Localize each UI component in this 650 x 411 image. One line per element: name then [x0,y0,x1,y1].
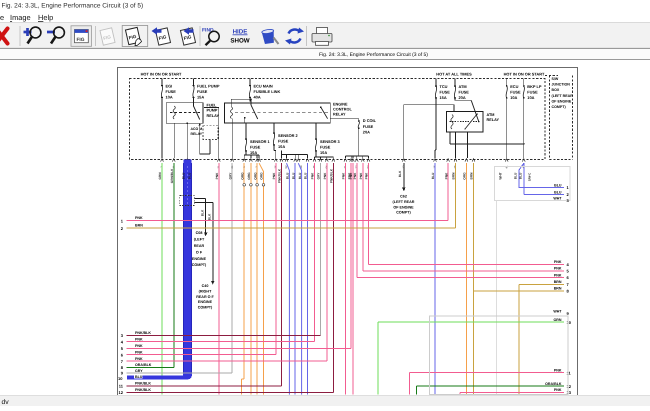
svg-text:(RIGHT: (RIGHT [199,289,212,293]
svg-text:Fig. 24: 3.3L, Engine Performa: Fig. 24: 3.3L, Engine Performance Circui… [319,52,428,58]
wire GRN/BLK [173,163,175,367]
relay ACO M (dashed box) [203,126,218,140]
wire ORG 2 [250,163,252,394]
wire PNK t5 [350,163,352,348]
title bar [0,0,650,11]
svg-text:(LEFT REAR: (LEFT REAR [393,200,415,204]
svg-text:PNK: PNK [311,172,315,179]
svg-text:FUSE: FUSE [363,124,374,129]
svg-text:RELAY: RELAY [333,113,346,117]
wire BLK to C08 ground [194,199,213,281]
svg-text:PNK: PNK [135,357,143,361]
svg-text:BLK: BLK [201,209,205,216]
svg-text:e: e [0,13,4,22]
wire PNK fuel pump [218,163,220,394]
svg-text:PNK: PNK [554,273,562,277]
fuse ATM 20A [454,79,456,86]
wire BLU 1 [287,163,290,394]
toolbar zoom in [24,27,41,43]
svg-text:RELAY: RELAY [207,114,220,118]
svg-text:BLU: BLU [514,172,518,179]
svg-text:EGI: EGI [166,84,173,89]
fuse ECU 10A [506,79,508,86]
svg-text:REAR: REAR [194,244,205,248]
svg-text:ENGINE: ENGINE [198,300,213,304]
wire BLU 4 [307,163,309,394]
svg-text:BLU: BLU [187,172,191,179]
svg-text:SENSOR 2: SENSOR 2 [278,133,299,138]
svg-text:12: 12 [567,384,572,389]
svg-text:Fig. 24: 3.3L, Engine Performa: Fig. 24: 3.3L, Engine Performance Circui… [2,3,144,10]
status bar [0,395,650,406]
svg-text:PUMP: PUMP [207,109,218,113]
toolbar bucket [262,29,276,44]
wire BLU 2 [294,163,296,394]
diagram frame [118,68,578,396]
wire BLU 3 [298,163,301,394]
svg-text:COMPT): COMPT) [396,211,411,215]
svg-text:FUSE: FUSE [250,145,261,150]
svg-text:GRN: GRN [158,172,162,180]
svg-text:PNK: PNK [215,172,219,179]
svg-text:SHOW: SHOW [230,38,249,45]
svg-text:BLK: BLK [398,170,402,177]
svg-text:PNK: PNK [554,267,562,271]
svg-text:(LEFT: (LEFT [194,238,205,242]
svg-text:BLU: BLU [519,172,523,179]
svg-text:BLK: BLK [208,213,212,220]
svg-text:ECU MAIN: ECU MAIN [254,84,273,89]
svg-text:BOX: BOX [552,88,560,92]
svg-text:BLU: BLU [431,172,435,179]
svg-text:C40: C40 [202,284,209,288]
svg-text:10A: 10A [527,95,534,100]
svg-text:BLU: BLU [291,172,295,179]
svg-text:40A: 40A [254,95,261,100]
wire labels (rotated) [158,168,523,183]
svg-text:ENGINE: ENGINE [333,103,348,107]
toolbar fig prev [155,28,170,45]
wire PNK right terminal 5 [363,270,564,272]
wire PNK left terminal 6 [127,354,276,356]
svg-text:BRN: BRN [135,224,143,228]
svg-text:BRN: BRN [554,287,562,291]
svg-text:WHT: WHT [553,196,562,200]
svg-text:PNK/BLK: PNK/BLK [330,168,334,183]
wire splice bar [345,155,368,157]
svg-text:CONTROL: CONTROL [333,108,352,112]
svg-text:PNK: PNK [323,172,327,179]
bus junction box (dashed) [130,79,546,160]
wire WHT right terminal 9 [0,0,1,1]
fuse TCU 15A [435,79,437,86]
wire GRN right terminal 10 [378,321,564,323]
svg-text:20A: 20A [363,129,370,134]
wire PNK13 vertical [459,392,461,394]
wire BLU term1 [519,163,564,187]
caption bar [0,47,650,49]
svg-text:ACO M: ACO M [191,127,203,131]
svg-text:PNK: PNK [444,172,448,179]
svg-text:S/W-C: S/W-C [528,172,532,181]
wire PNK t7 [326,163,328,361]
svg-text:10: 10 [118,376,123,381]
wire PNK r5 [362,163,364,271]
svg-text:ATM: ATM [487,113,495,117]
svg-text:PNK: PNK [135,337,143,341]
svg-text:GRN/BLK: GRN/BLK [170,168,174,183]
svg-text:HOT AT ALL TIMES: HOT AT ALL TIMES [436,72,472,77]
fuse SENSOR 3 10A [315,138,340,155]
svg-text:FUSE: FUSE [510,90,521,95]
svg-text:20A: 20A [459,95,466,100]
wire BLU right terminal 2 [0,0,1,1]
fuse ECU MAIN FUSIBLE LINK 40A [249,79,251,86]
wire PNK long1 [344,163,346,394]
svg-text:GRN: GRN [554,318,562,322]
svg-text:ORG: ORG [463,172,467,180]
wire BRN atm2 [473,163,475,394]
svg-text:BLU: BLU [135,375,143,379]
svg-text:PNK: PNK [342,172,346,179]
svg-text:PNK: PNK [272,172,276,179]
svg-text:GRY: GRY [228,172,232,180]
wire PNK/BLK left terminal 3 [127,334,321,336]
svg-text:12: 12 [119,390,124,395]
fuse BKP LP 10A [523,79,525,86]
svg-text:COMPT): COMPT) [198,306,213,310]
wire ORG 3 [256,163,258,394]
svg-text:PNK/BLK: PNK/BLK [135,388,151,392]
wire PNK/BLK t12 [332,163,334,392]
svg-text:COMPT): COMPT) [552,105,567,109]
svg-text:S/W: S/W [552,77,559,81]
svg-text:PNK/BLK: PNK/BLK [135,382,151,386]
svg-text:ORA/BLK: ORA/BLK [135,363,152,367]
svg-text:HOT IN ON OR START: HOT IN ON OR START [504,72,545,77]
wire WHT right terminal 3 [0,0,1,1]
svg-text:10A: 10A [278,144,285,149]
svg-text:10A: 10A [250,150,257,155]
svg-text:PNK: PNK [353,172,357,179]
svg-text:FIG: FIG [77,37,85,43]
wire splice bar 2 [282,154,308,156]
svg-text:WHT: WHT [553,309,562,313]
svg-text:dv: dv [2,399,10,406]
fuse FUEL PUMP 15A [193,79,195,86]
svg-text:BLU: BLU [298,172,302,179]
toolbar fig next [180,28,195,45]
relay ENGINE CONTROL RELAY [225,98,353,123]
svg-text:15A: 15A [197,95,204,100]
wire BLU tcu [434,163,436,394]
svg-text:10A: 10A [320,150,327,155]
svg-text:BKP LP: BKP LP [527,84,542,89]
wire PNK right terminal 4 [369,263,565,265]
wire GRY left terminal 9 [127,372,233,374]
module box terminals 1-3 (light) [494,167,570,201]
wire PNK left terminal 5 [127,347,352,349]
wire PNK right terminal 6 [357,277,564,279]
svg-text:ENGINE: ENGINE [192,257,207,261]
svg-text:FUEL: FUEL [207,104,218,108]
module box (light) [430,316,569,395]
svg-text:RELAY: RELAY [191,132,203,136]
wire BLU right terminal 1 [0,0,1,1]
toolbar zoom out [47,27,64,43]
svg-text:FIND: FIND [202,28,214,34]
svg-text:C62: C62 [400,195,407,199]
wire BRN terminal 2 [127,227,456,229]
fuse SENSOR 1 10A [245,138,270,155]
wire BRN right terminal 8 [474,290,565,292]
wire PNK/BLK left terminal 11 [127,385,282,387]
svg-text:10A: 10A [166,95,173,100]
svg-text:10: 10 [567,320,572,325]
wire ORG 1 [243,163,245,379]
fuse EGI 10A [161,79,163,86]
wire PNK11 vertical [409,373,411,395]
svg-text:ORG: ORG [240,172,244,180]
ground C40 [211,281,215,285]
svg-text:PNK: PNK [554,369,562,373]
svg-text:TCU: TCU [440,84,448,89]
svg-text:BLU: BLU [554,183,562,187]
wire splice bar 1b [315,156,334,158]
wire BRN right terminal 7 [519,283,564,285]
svg-text:D COIL: D COIL [363,118,377,123]
relay FUEL PUMP RELAY [166,103,219,124]
connector C08 (dashed) [180,196,195,206]
svg-text:FUSE: FUSE [278,139,289,144]
svg-text:BLU: BLU [304,172,308,179]
svg-text:Image: Image [10,13,31,22]
wire relay legs [173,123,175,158]
svg-text:PNK: PNK [135,216,143,220]
wire PNK t4 [314,163,316,341]
wire ORA/BLK right terminal 12 [417,385,565,387]
svg-text:PNK: PNK [359,172,363,179]
wire GRN [161,163,163,394]
toolbar fig window button [71,26,92,47]
svg-text:PNK: PNK [135,344,143,348]
svg-text:FUSIBLE LINK: FUSIBLE LINK [254,89,281,94]
svg-text:ORG: ORG [253,172,257,180]
svg-text:BRN: BRN [554,280,562,284]
svg-text:ECU: ECU [510,84,518,89]
svg-text:FUSE: FUSE [527,90,538,95]
wire ORA/BLK left terminal 8 [127,366,174,368]
svg-text:OF ENGINE: OF ENGINE [393,205,414,209]
toolbar close X [0,29,8,44]
connector pins [161,159,526,162]
svg-text:ORG: ORG [247,172,251,180]
svg-text:PNK: PNK [135,350,143,354]
svg-text:BRN: BRN [452,172,456,180]
wire PNK long2 [352,163,354,394]
wire BLU bundle (thick) [183,159,192,373]
svg-text:PNK: PNK [365,172,369,179]
svg-text:BRN: BRN [470,172,474,180]
svg-text:PNK/BLK: PNK/BLK [278,168,282,183]
toolbar printer [317,28,328,35]
toolbar fig page disabled [100,28,115,45]
relay ATM RELAY [447,112,500,133]
splice circles [243,184,246,187]
wire GRN10 vertical [377,322,379,394]
svg-text:RELAY: RELAY [487,118,500,122]
svg-text:SENSOR 1: SENSOR 1 [250,139,271,144]
svg-text:SENSOR 3: SENSOR 3 [320,139,341,144]
wire PNK left terminal 7 [127,360,327,362]
fuse D COIL 20A [358,118,377,134]
wire PNK t6 [275,163,277,354]
svg-text:REAR O F: REAR O F [196,295,214,299]
svg-text:PNK: PNK [554,260,562,264]
toolbar fig page hand button [122,26,148,47]
wire PNK r6 [356,163,358,277]
wire PNK left terminal 4 [127,341,315,343]
svg-text:FUSE: FUSE [166,89,177,94]
svg-text:ORA/BLK: ORA/BLK [545,382,562,386]
svg-text:C08: C08 [196,231,203,235]
wire PNK/BLK left terminal 12 [127,391,334,393]
svg-text:BLU: BLU [181,172,185,179]
svg-text:HOT IN ON OR START: HOT IN ON OR START [141,72,182,77]
menu bar [0,11,650,23]
wire PNK r4 [368,163,370,264]
wire GRY t3 [319,163,321,335]
wire GRY 1 [231,163,233,373]
wire PNK terminal 1 [127,220,449,222]
svg-text:GRY: GRY [317,172,321,180]
svg-text:FUSE: FUSE [320,145,331,150]
toolbar [0,23,650,48]
toolbar refresh [289,30,301,43]
svg-text:GRY: GRY [135,369,143,373]
wire ORG atm [465,163,467,394]
wire BLK to C40 ground [194,202,213,204]
fuse SENSOR 2 10A [273,132,298,149]
svg-text:FUSE: FUSE [440,90,451,95]
svg-text:PNK: PNK [554,388,562,392]
wire C62 feed [404,104,454,106]
svg-text:FUSE: FUSE [197,89,208,94]
module boundary (light) [496,201,498,395]
wire BRN7 vertical [518,284,520,394]
svg-text:15A: 15A [440,95,447,100]
wire BLU term2 [523,163,525,194]
ground C62 [403,163,405,187]
svg-text:(LEFT REAR: (LEFT REAR [552,94,574,98]
svg-text:PNK/BLK: PNK/BLK [135,331,151,335]
svg-text:FUEL PUMP: FUEL PUMP [197,84,220,89]
svg-text:WHT: WHT [499,172,503,179]
wire EC relay legs [231,119,233,159]
wire ATM relay legs [455,132,457,158]
wire ORA/BLK12 vertical [416,386,418,394]
svg-text:ATM: ATM [459,84,467,89]
svg-text:10A: 10A [510,95,517,100]
wire ORG 4 [259,163,263,394]
svg-text:FUSE: FUSE [459,90,470,95]
wire PNK right terminal 11 [410,372,565,374]
wire PNK right terminal 13 [460,391,564,393]
svg-text:COMPT): COMPT) [192,263,207,267]
S/W junction box boundary [545,75,558,77]
wire PNK/BLK t11 [281,163,283,386]
svg-text:OF ENGINE: OF ENGINE [552,99,572,103]
ground C08 [204,233,208,237]
svg-text:ORG: ORG [260,172,264,180]
svg-text:Help: Help [38,13,53,22]
svg-text:BLU: BLU [286,172,290,179]
svg-text:BLU: BLU [554,190,562,194]
svg-text:JUNCTION: JUNCTION [552,83,571,87]
svg-text:O F: O F [196,250,203,254]
